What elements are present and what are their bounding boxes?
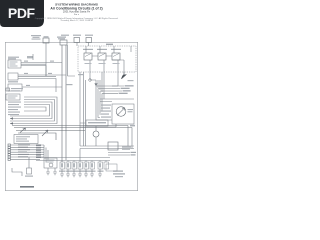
connector arrow up <box>94 83 97 86</box>
wire S2 out 1 <box>18 75 66 77</box>
relay K1 coil wire <box>86 46 98 72</box>
wire code label b <box>50 61 54 62</box>
fuse F2 <box>60 40 67 45</box>
run 2 label <box>131 154 136 155</box>
wire bundle arm 2 label <box>121 88 130 89</box>
junction block name label <box>106 44 113 45</box>
thermal switch S2 box <box>8 73 18 80</box>
ground G3 <box>72 169 76 177</box>
wire to arrow C101 <box>123 72 125 75</box>
schematic frame <box>5 42 137 190</box>
row labels smudge <box>18 144 30 157</box>
connector box inner text <box>61 163 101 167</box>
bottom component drop 1 <box>61 161 63 163</box>
wire from label box left <box>80 123 96 131</box>
wire code label e <box>26 85 30 86</box>
label box text <box>88 122 106 123</box>
wire S2 out 2 <box>18 79 56 93</box>
connector C3 label <box>25 176 33 177</box>
bottom component drop 8 <box>105 161 107 163</box>
bottom component drop 3 <box>73 161 75 163</box>
wire K1 output down <box>90 72 96 80</box>
relay K1 contact diagonal <box>85 54 91 57</box>
bus to bottom components <box>36 158 110 161</box>
page background <box>0 0 149 198</box>
bottom component drop 2 <box>67 161 69 163</box>
wire fuse F5 to junction block <box>88 43 90 47</box>
wire S3 out <box>22 86 62 88</box>
relay K3 contact diagonal <box>113 54 119 57</box>
wire from fuse F1 down <box>45 43 47 76</box>
condenser fan connector box <box>106 164 117 171</box>
switch S1 (A/C switch) box <box>8 60 21 68</box>
bottom connector box 5 <box>84 162 89 169</box>
connector arrow C101 (dark) <box>122 75 127 80</box>
wire bundle arm 2 <box>98 88 120 90</box>
wire bundle top of lower-left cluster <box>12 126 132 141</box>
relay K2 (blower relay) <box>98 53 106 60</box>
ground G9 <box>53 168 57 175</box>
switch S1 label <box>8 57 19 60</box>
wire right drop to label block <box>128 126 132 149</box>
splice arrow S201 <box>42 130 48 136</box>
splice S203 circle <box>89 79 92 82</box>
bottom connector box 7 <box>98 162 103 169</box>
pressure switch S3 label <box>8 81 18 82</box>
wire trunk B <box>65 45 67 160</box>
evaporator sensor box <box>6 94 20 100</box>
fuse F1 label block <box>31 35 41 40</box>
wire loop C-shape 2 <box>10 100 55 122</box>
wire S1 to trunk lower <box>21 66 46 77</box>
wire into S1 from top <box>32 54 34 60</box>
wire row drop to connector C3 <box>28 157 30 168</box>
motor box corner label <box>130 125 135 127</box>
ground G8 <box>46 168 50 175</box>
relay K1 label <box>83 49 93 50</box>
condenser fan motor M2 circle <box>93 131 99 137</box>
connector C2 box <box>14 135 38 144</box>
wire from fuse F2 down (trunk A) <box>61 45 63 162</box>
ground G4 <box>78 169 82 177</box>
svg-text:Thursday, March 17, 2005 11:04: Thursday, March 17, 2005 11:04PM <box>60 19 93 22</box>
relay K3 coil wire <box>114 46 118 72</box>
ground G5 <box>84 169 88 177</box>
condenser fan label rows <box>113 171 125 178</box>
wire row 6 with pin <box>8 156 44 158</box>
wire bottom-right run 1 <box>108 152 130 154</box>
relay K1 (A/C relay) <box>84 53 92 60</box>
connector C6 box <box>108 142 118 150</box>
wire bundle arm 3 label <box>123 90 131 91</box>
bottom component drop 7 <box>99 161 101 163</box>
bottom connector box 3 <box>72 162 77 169</box>
wire over motor box <box>100 99 134 102</box>
wire bundle wrap down <box>96 86 112 120</box>
fuse F5 label <box>85 35 93 36</box>
wire bus lower right <box>80 146 134 149</box>
pressure switch S3 box <box>8 84 22 91</box>
motor inner label <box>128 109 134 112</box>
fuse F5 <box>86 38 92 43</box>
wire fuse F4 to junction block <box>76 43 78 47</box>
wire K2 output down <box>103 72 105 99</box>
blower motor M1 circle <box>116 107 126 117</box>
wire M1 exits <box>80 124 116 127</box>
wire branch x83 down <box>84 72 86 146</box>
wire to M2 <box>95 137 97 146</box>
wire code label d <box>48 73 52 74</box>
wire bundle arm 4 label <box>119 93 128 94</box>
relay K2 label <box>97 49 107 50</box>
bottom component drop 5 <box>85 161 87 163</box>
connector C2 inner text <box>16 136 30 142</box>
relay output label box <box>86 120 108 126</box>
bottom component drop 6 <box>91 161 93 163</box>
wire junction block stub <box>130 46 132 52</box>
bottom connector box 4 <box>78 162 83 169</box>
switch S1 inner text <box>10 62 18 67</box>
ground G2 <box>66 169 70 177</box>
wire code label a <box>24 61 28 62</box>
blower switch S4 inner text <box>46 160 55 163</box>
bottom connector box 8 <box>104 162 109 169</box>
connector C1 labels <box>11 88 23 91</box>
wire bottom-left step <box>12 168 22 176</box>
loop end arrow b <box>10 117 13 119</box>
relay K2 contact diagonal <box>99 54 105 57</box>
wire bottom-right run 2 <box>108 154 130 156</box>
blower motor M1 pin labels <box>101 105 111 118</box>
wire row 7 with pin <box>8 158 40 160</box>
connector C3 box <box>27 168 32 174</box>
blower switch S4 box <box>44 158 57 168</box>
wire relay K3 to arrow C101 <box>112 60 124 75</box>
ground G6 <box>90 169 94 177</box>
wire loop C-shape 3 <box>10 102 52 119</box>
wire ladder left labels <box>8 102 21 116</box>
wire bundle arm 4 <box>102 93 118 95</box>
fuse F1 value label <box>44 36 49 37</box>
relay K3 label <box>111 49 121 50</box>
bracket label above S1 <box>27 56 33 58</box>
pin label below dashed box <box>78 74 84 75</box>
loop end arrow a <box>10 122 13 124</box>
fuse F3 label <box>61 35 69 36</box>
bottom component drop 4 <box>79 149 81 163</box>
fuse F1 <box>43 38 49 43</box>
wire row 5 with pin <box>8 154 44 156</box>
relay pin number labels <box>85 63 120 64</box>
wire code label c <box>24 73 28 74</box>
wire bundle arm 1 label <box>125 85 134 86</box>
blower switch S4 circle <box>49 163 53 167</box>
bottom connector box 2 <box>66 162 71 169</box>
row end connector boxes <box>36 144 41 158</box>
wire row 2 with pin <box>8 146 44 148</box>
relay K3 (condenser fan relay) <box>112 53 120 60</box>
wire K3 output down <box>112 72 118 86</box>
wire loop C-shape 1 <box>10 97 57 124</box>
fuse F4 label <box>73 35 81 36</box>
evaporator sensor inner text <box>8 96 18 99</box>
blower motor M1 diagonal arrow <box>117 108 125 116</box>
wire drops into bundle <box>96 72 102 92</box>
fuse F2 label block <box>57 37 66 40</box>
wire bundle arm 1 <box>96 85 124 87</box>
ground G7 <box>98 169 102 177</box>
splice label near trunk <box>67 84 73 85</box>
wire loop C-shape 4 <box>10 105 50 117</box>
connector C1 <box>6 88 10 91</box>
wire trunk C <box>68 45 76 76</box>
wire row 3 with pin <box>8 149 44 151</box>
bottom connector box 1 <box>60 162 65 169</box>
junction block dashed box <box>78 46 136 72</box>
ground G1 <box>60 169 64 177</box>
PDF badge <box>0 0 44 27</box>
wire row 4 with pin <box>8 151 44 153</box>
wire S1 to trunk upper <box>21 63 62 65</box>
arrow C101 label <box>128 80 134 81</box>
svg-text:PDF: PDF <box>8 5 36 21</box>
run 1 label <box>131 152 137 153</box>
page number text <box>20 186 34 188</box>
fuse F4 <box>74 38 80 43</box>
wire row 1 with pin <box>8 144 44 146</box>
bottom labels smudge row <box>59 171 104 172</box>
bottom connector box 6 <box>90 162 95 169</box>
wire loop inner return <box>24 107 46 111</box>
connector C6 label rows <box>122 147 131 150</box>
blower motor M1 box <box>112 104 134 124</box>
splice arrow S202 <box>20 128 26 133</box>
relay K2 coil wire <box>100 46 112 72</box>
wire bundle arm 3 <box>100 90 122 92</box>
vertical collector wires <box>44 145 48 162</box>
wire pin drop x80 <box>79 72 81 146</box>
